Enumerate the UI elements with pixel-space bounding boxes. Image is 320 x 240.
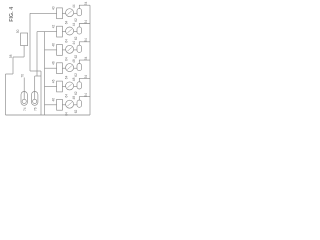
fuse F4: [77, 64, 82, 71]
wire left bus down: [5, 74, 7, 115]
motor M6: [66, 100, 74, 108]
svg-text:62: 62: [74, 110, 78, 114]
box D3: [57, 45, 63, 56]
fuse F2: [77, 27, 82, 34]
wire row6: [45, 104, 57, 106]
motor mark: [67, 29, 71, 33]
svg-text:48: 48: [72, 59, 76, 63]
wire fuse to bus: [79, 97, 90, 100]
wire cell E1 stem: [23, 78, 25, 92]
svg-text:46: 46: [52, 43, 56, 47]
svg-text:48: 48: [72, 77, 76, 81]
motor mark: [67, 66, 71, 70]
wire box-motor: [62, 67, 65, 69]
wire horizontal junction: [30, 70, 41, 72]
box D5: [57, 81, 63, 92]
wire motor-fuse: [74, 67, 77, 69]
svg-text:46: 46: [52, 61, 56, 65]
wire box-motor: [62, 104, 65, 106]
motor mark: [67, 11, 71, 15]
svg-text:70: 70: [20, 74, 24, 78]
wire fuse to bus: [79, 24, 90, 27]
wire motor-fuse: [74, 104, 77, 106]
svg-text:46: 46: [52, 98, 56, 102]
wire fuse to bus: [79, 42, 90, 45]
six repeated driver rows: [30, 1, 90, 115]
svg-text:62: 62: [74, 91, 78, 95]
wire motor-fuse: [74, 86, 77, 88]
wire down left branch: [12, 57, 14, 74]
motor mark: [67, 102, 71, 106]
fuse F5: [77, 82, 82, 89]
svg-text:62: 62: [74, 55, 78, 59]
svg-text:42: 42: [52, 25, 56, 29]
wire row1 feed vertical: [29, 13, 31, 71]
motor M1: [66, 9, 74, 17]
wire box-motor: [62, 31, 65, 33]
motor mark: [67, 47, 71, 51]
wire row1: [30, 12, 57, 14]
right bus wire: [89, 5, 91, 115]
wire motor-fuse: [74, 31, 77, 33]
bottom bus wire: [6, 114, 91, 116]
svg-text:50: 50: [16, 29, 20, 33]
svg-text:64: 64: [65, 112, 69, 116]
wire pill2 stem connector: [35, 75, 41, 77]
svg-text:58: 58: [9, 54, 13, 58]
svg-text:62: 62: [74, 36, 78, 40]
wire box-motor: [62, 49, 65, 51]
svg-text:48: 48: [72, 96, 76, 100]
cell E1 (left pill): [21, 92, 27, 106]
wire fuse to bus: [79, 78, 90, 81]
svg-text:44: 44: [72, 4, 76, 8]
svg-text:44: 44: [72, 23, 76, 27]
box D1: [57, 8, 63, 19]
svg-text:54: 54: [84, 38, 88, 42]
wire fuse to bus: [79, 5, 90, 8]
box D6: [57, 99, 63, 110]
svg-text:74: 74: [23, 107, 27, 111]
wire cell E2 stem: [34, 76, 36, 92]
svg-text:54: 54: [84, 1, 88, 5]
box B1 (left control box): [21, 33, 28, 46]
svg-text:62: 62: [74, 73, 78, 77]
wire box-motor: [62, 12, 65, 14]
svg-text:64: 64: [65, 75, 69, 79]
wire row2 feed vertical: [36, 32, 38, 76]
svg-text:44: 44: [72, 41, 76, 45]
wire jog left: [6, 73, 14, 75]
cell E1 inner circle: [22, 99, 26, 103]
svg-text:40: 40: [52, 6, 56, 10]
motor M2: [66, 27, 74, 35]
wire motor-fuse: [74, 12, 77, 14]
cell E2 inner circle: [33, 99, 37, 103]
box D2: [57, 26, 63, 37]
cell E2 inner stem: [34, 92, 36, 100]
svg-text:FIG. 4: FIG. 4: [9, 7, 15, 22]
motor M3: [66, 45, 74, 53]
svg-text:54: 54: [84, 75, 88, 79]
svg-text:54: 54: [84, 93, 88, 97]
svg-text:64: 64: [65, 21, 69, 25]
wire fuse to bus: [79, 60, 90, 63]
fuse F3: [77, 45, 82, 52]
wire box-motor: [62, 86, 65, 88]
svg-text:54: 54: [84, 56, 88, 60]
fuse F1: [77, 9, 82, 16]
cell E1 inner stem: [23, 92, 25, 100]
wire motor-fuse: [74, 49, 77, 51]
motor M4: [66, 64, 74, 72]
svg-text:46: 46: [52, 79, 56, 83]
cell E2 (right pill): [32, 92, 38, 106]
fuse F6: [77, 100, 82, 107]
wire row5: [45, 86, 57, 88]
wire horizontal to left: [13, 56, 24, 58]
svg-text:64: 64: [65, 39, 69, 43]
wire B1 bottom down: [23, 46, 25, 57]
svg-text:64: 64: [65, 94, 69, 98]
main bus vertical: [44, 32, 46, 115]
svg-text:62: 62: [74, 18, 78, 22]
motor mark: [67, 84, 71, 88]
wire row4: [45, 67, 57, 69]
wire row2: [37, 31, 57, 33]
wire row3: [45, 49, 57, 51]
svg-text:64: 64: [65, 57, 69, 61]
svg-text:54: 54: [84, 20, 88, 24]
wire mid bus down: [40, 71, 42, 115]
svg-text:76: 76: [33, 107, 37, 111]
box D4: [57, 63, 63, 74]
motor M5: [66, 82, 74, 90]
